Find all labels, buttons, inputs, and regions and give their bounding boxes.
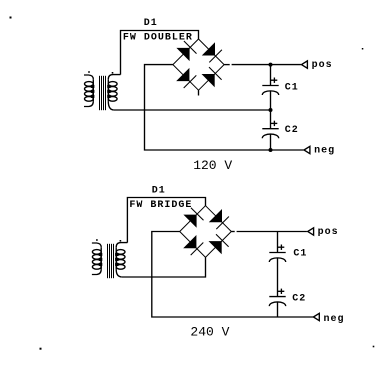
svg-text:D1: D1 (152, 186, 166, 197)
svg-text:240 V: 240 V (190, 324, 229, 339)
svg-text:D1: D1 (144, 18, 158, 29)
svg-text:FW BRIDGE: FW BRIDGE (129, 200, 192, 211)
svg-text:neg: neg (324, 314, 345, 325)
svg-text:C1: C1 (285, 83, 299, 94)
svg-text:C1: C1 (293, 248, 307, 259)
svg-text:120 V: 120 V (193, 158, 232, 173)
svg-text:neg: neg (314, 146, 335, 157)
svg-text:pos: pos (312, 60, 333, 71)
svg-text:C2: C2 (285, 125, 299, 136)
svg-text:pos: pos (318, 227, 339, 238)
svg-text:FW DOUBLER: FW DOUBLER (123, 32, 193, 43)
svg-text:C2: C2 (292, 293, 306, 304)
